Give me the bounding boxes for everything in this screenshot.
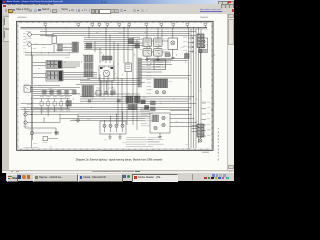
- start button: [7, 174, 19, 182]
- diode D2: [55, 132, 59, 135]
- left letterbox black bar: [0, 0, 2, 180]
- wire continuation stub B7: [202, 135, 211, 136]
- bottom-left switch labels: [40, 95, 70, 98]
- relay K4: [139, 38, 152, 47]
- task button 2: [78, 174, 123, 182]
- stub risers BL: [42, 106, 68, 116]
- wire continuation stub B6: [202, 129, 211, 130]
- connector cluster C10: [126, 96, 133, 103]
- status bar: [2, 170, 234, 174]
- wire continuation label A1: [183, 37, 194, 39]
- left margin labels: [23, 33, 26, 52]
- windows taskbar: [6, 172, 233, 181]
- wire centre verticals lower: [100, 72, 137, 130]
- ground G10: [54, 128, 58, 135]
- svg-text:Diagram 2a: Exterior lighting: Diagram 2a: Exterior lighting - signal w…: [76, 159, 163, 162]
- page number text: [202, 151, 209, 154]
- aux components mid: [96, 88, 115, 96]
- wire C3 C4 feeds: [33, 63, 46, 78]
- splice box J7: [141, 100, 145, 104]
- connector C8: [154, 79, 168, 88]
- wire C3 outputs: [62, 62, 80, 68]
- ground G11: [108, 134, 112, 139]
- splice box J4: [135, 44, 139, 48]
- frame tick marks bottom: [21, 149, 207, 151]
- toolbar mini icons: [123, 175, 126, 178]
- menu bar: [2, 4, 234, 9]
- wire centre band2: [21, 94, 197, 103]
- bulb E5: [155, 91, 158, 94]
- frame tick marks top: [21, 21, 207, 23]
- connector C6: [82, 86, 94, 98]
- task button 3 active: [132, 174, 178, 182]
- relay K5: [154, 38, 167, 47]
- bottom text block: [126, 137, 160, 147]
- foglamp switch S10: [29, 130, 53, 135]
- ground G14: [156, 56, 160, 62]
- splice box J6: [151, 107, 156, 111]
- bulb E4: [121, 124, 124, 132]
- bulb E8: [162, 116, 165, 119]
- wire switch row buses: [33, 99, 70, 109]
- junction box dark: [185, 54, 190, 59]
- heater connector row: [42, 90, 76, 94]
- wiper motor M1: [99, 66, 114, 81]
- bulb E1: [103, 124, 106, 132]
- mid band extra marks: [88, 92, 126, 102]
- switch contact S2: [40, 99, 43, 109]
- splice box J5: [151, 101, 156, 105]
- bulb E3: [115, 124, 118, 132]
- ground G17: [76, 115, 80, 123]
- wire bus drop to K1: [46, 27, 54, 36]
- switch contact S4: [53, 99, 56, 109]
- wire left feed pair: [25, 53, 79, 55]
- connector stack C5a: [84, 55, 93, 62]
- splice box J8: [145, 106, 149, 110]
- wire junction dots: [25, 27, 206, 126]
- page header text left: [18, 16, 27, 19]
- switch contact S6: [66, 99, 69, 109]
- fuse F11: [185, 22, 189, 28]
- wire long hlines lower: [21, 108, 192, 121]
- splice box J3: [129, 39, 134, 44]
- wiring label list: [141, 108, 153, 126]
- bottom note text: [24, 146, 38, 149]
- ground G16: [158, 133, 162, 139]
- connector cluster C12: [128, 105, 137, 110]
- toolbar: [2, 8, 234, 15]
- ground G12: [118, 134, 122, 139]
- wire continuation stub B2: [202, 107, 211, 108]
- wire harness bundle centre: [84, 38, 140, 50]
- wire continuation label A4: [183, 50, 194, 52]
- connector block C1: [58, 44, 63, 51]
- drawing frame border: [17, 21, 213, 150]
- task button 1: [33, 174, 78, 182]
- relay K6: [139, 49, 152, 57]
- battery G2: [26, 41, 52, 46]
- wire ignition verticals: [89, 25, 137, 78]
- wire rear lamp feeds: [170, 111, 199, 127]
- wire right harness verticals: [189, 30, 202, 148]
- fuse F5: [105, 22, 109, 28]
- generator G1: [26, 31, 54, 36]
- indicator switch S7: [23, 111, 78, 116]
- fuse F9: [159, 22, 163, 28]
- right letterbox black bar: [234, 0, 240, 180]
- fusebox connector C2: [72, 42, 79, 52]
- wire supply bus 15: [21, 28, 208, 30]
- wire upper distribution lines: [40, 32, 196, 36]
- bottom-left switch labels2: [40, 110, 70, 113]
- wire continuation stub B5: [202, 124, 211, 125]
- splice bar J2: [102, 56, 112, 60]
- fuse F2: [76, 22, 80, 28]
- side lamp unit E7: [199, 49, 203, 88]
- diode block D1: [165, 53, 170, 57]
- wire bottom left run: [25, 109, 56, 129]
- relay K9: [43, 137, 59, 143]
- bulb E6: [162, 91, 165, 94]
- bulb E12: [199, 139, 202, 142]
- rear lamp connector C9: [152, 115, 159, 122]
- wire continuation stub B4: [202, 118, 211, 119]
- fuse F7: [127, 22, 131, 28]
- wire C7 outputs: [141, 60, 191, 79]
- connector stack C15: [197, 34, 204, 48]
- wire supply bus 30: [21, 26, 208, 28]
- lamp cluster housing: [100, 121, 126, 134]
- hazard switch S8: [23, 121, 60, 127]
- connector stack C5c: [84, 71, 93, 77]
- connector stack C14: [197, 124, 204, 137]
- bulkhead connector strip C7: [138, 58, 141, 87]
- bulb E2: [109, 124, 112, 132]
- wire motor drops: [101, 81, 112, 97]
- wire right harness drops: [189, 27, 202, 30]
- wire left harness vertical: [32, 47, 33, 149]
- bulb E9: [162, 123, 165, 126]
- wire BL hlines: [33, 86, 80, 96]
- fuse F6: [117, 22, 121, 28]
- relay module K8: [154, 60, 166, 70]
- wire C4 outputs: [63, 73, 97, 80]
- wire S1 outputs: [31, 88, 80, 92]
- bulb E10: [154, 126, 157, 129]
- ground G13: [145, 47, 149, 62]
- connector stack C5b: [84, 63, 93, 70]
- wire continuation stub B1: [202, 102, 211, 103]
- instrument connector C13: [66, 101, 71, 107]
- quick launch icons: [18, 175, 21, 179]
- connector pin ticks: [33, 52, 214, 111]
- starter relay K1: [52, 36, 56, 53]
- wire continuation label A3: [183, 46, 194, 48]
- wire continuation label A2: [183, 41, 194, 43]
- switch contact S5: [60, 99, 63, 109]
- wire K1 to C2: [56, 44, 72, 50]
- lighting switch S1: [24, 84, 31, 92]
- document page: [9, 14, 227, 170]
- wire continuation stub B3: [202, 113, 211, 114]
- frame tick marks right: [211, 26, 213, 146]
- splice block J1: [86, 43, 92, 48]
- drawing frame inner line: [18, 23, 212, 149]
- multiplug connector C4: [46, 71, 63, 82]
- title bar: [2, 0, 234, 4]
- page header text right: [200, 16, 208, 19]
- wire lamp cluster feeds: [105, 112, 123, 124]
- fuse F10: [171, 22, 175, 28]
- fuse F3: [90, 22, 94, 28]
- wire TR hlines: [128, 43, 188, 61]
- page side text: [218, 128, 219, 161]
- application window frame: [2, 0, 234, 172]
- flasher unit K3: [125, 63, 131, 72]
- fuse F4: [97, 22, 101, 28]
- frame tick marks left: [17, 26, 19, 146]
- wire relay link lines: [150, 41, 170, 52]
- label alternator: [25, 37, 32, 40]
- fuse F12: [203, 22, 207, 28]
- side repeater cluster: [200, 38, 208, 53]
- left navigation pane tabs: [2, 14, 10, 170]
- wire centre hlines: [76, 79, 145, 85]
- wire relay feeds: [147, 27, 173, 38]
- connector cluster C11: [135, 96, 141, 103]
- wire S8 risers: [44, 115, 60, 123]
- relay K7: [154, 49, 167, 57]
- multiplug connector C3: [46, 61, 62, 69]
- switch contact S3: [47, 99, 50, 109]
- wire C14 feeds: [192, 126, 201, 139]
- fuse F8: [144, 22, 148, 28]
- fuse F1: [43, 22, 47, 28]
- rear lamp housing: [150, 113, 170, 133]
- wire colour code labels: [27, 32, 215, 150]
- vertical scrollbar: [227, 14, 235, 170]
- control unit U1: [168, 38, 178, 50]
- system tray: [192, 174, 234, 180]
- wiring key text block: [148, 137, 164, 145]
- ground G15: [171, 50, 175, 60]
- component label column: [147, 58, 152, 94]
